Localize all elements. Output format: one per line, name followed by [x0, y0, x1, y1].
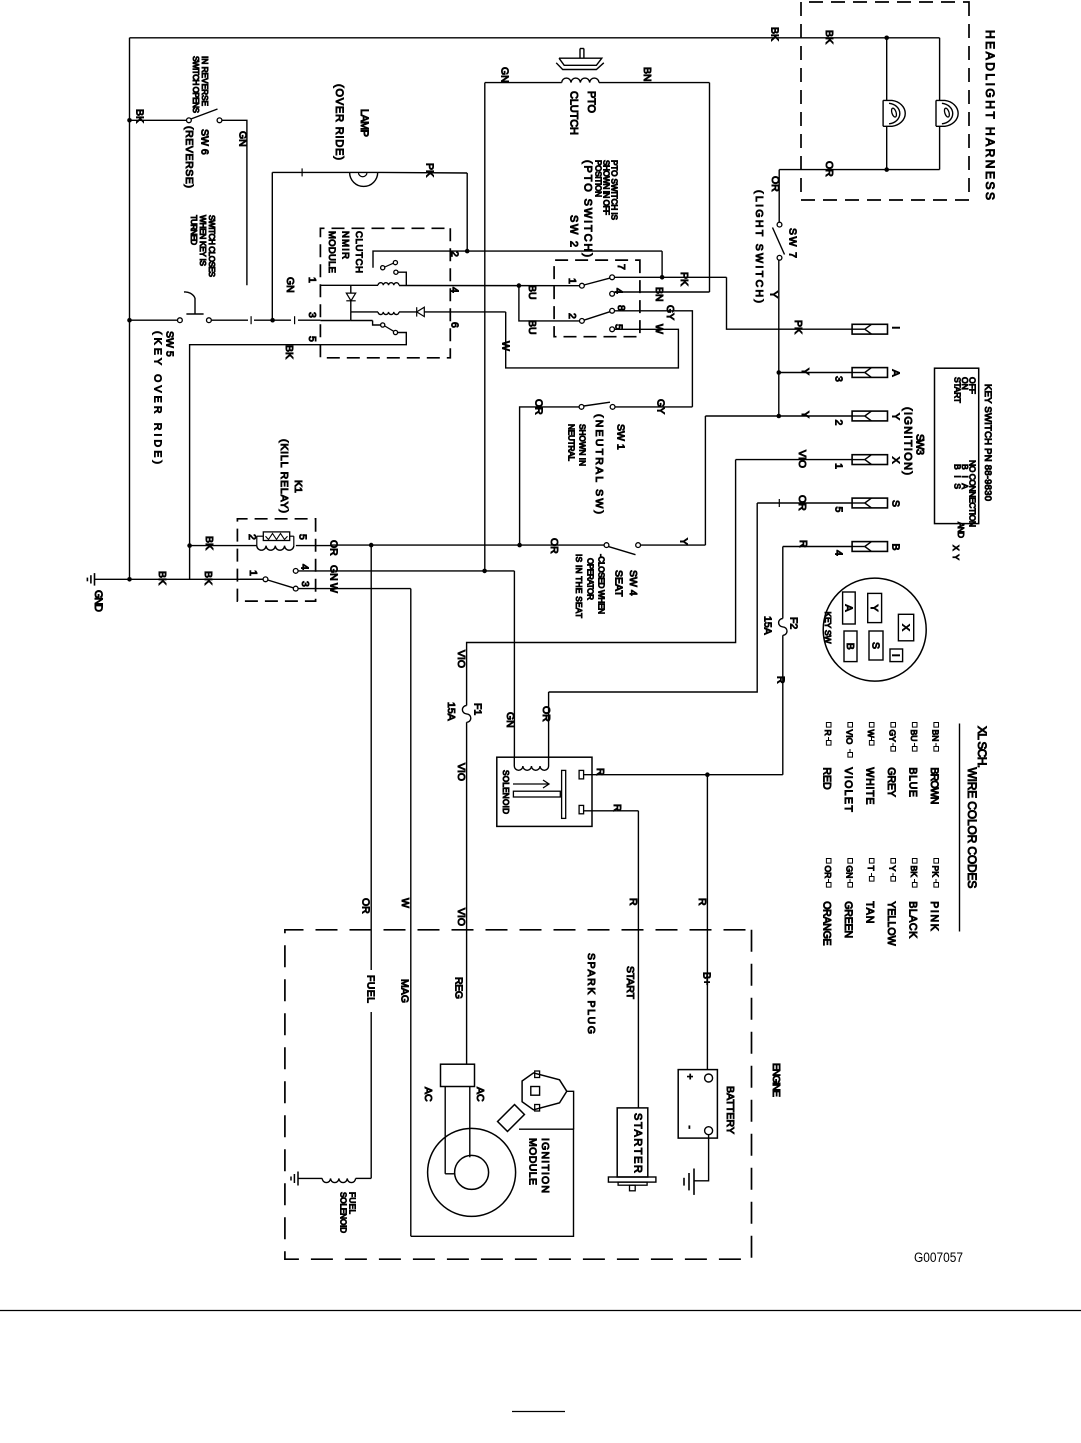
- wire GN down to solenoid: [513, 571, 515, 757]
- svg-text:GREY: GREY: [885, 767, 897, 797]
- svg-text:GREEN: GREEN: [842, 901, 854, 938]
- svg-text:(IGNITION): (IGNITION): [901, 407, 913, 475]
- svg-text:1: 1: [832, 463, 844, 469]
- svg-text:BK: BK: [283, 345, 295, 359]
- headlight lamp 2: [936, 100, 958, 126]
- connector spade terminal row S: [852, 498, 887, 508]
- wire GN long vertical: [484, 83, 486, 571]
- svg-text:F1: F1: [471, 703, 483, 715]
- wire Y bus: [778, 260, 780, 416]
- svg-text:SWITCH OPENS: SWITCH OPENS: [191, 56, 200, 114]
- svg-text:SPARK PLUG: SPARK PLUG: [585, 953, 597, 1034]
- svg-text:OPERATOR: OPERATOR: [585, 558, 594, 600]
- svg-text:Y: Y: [677, 538, 689, 545]
- svg-text:Y: Y: [889, 413, 901, 420]
- svg-text:LAMP: LAMP: [358, 109, 370, 137]
- SW6 terminal 1: [187, 118, 192, 123]
- module diode D2: [417, 307, 425, 316]
- module contact2 NC: [393, 330, 397, 334]
- svg-text:3: 3: [299, 581, 311, 587]
- svg-text:SW 4: SW 4: [627, 570, 639, 596]
- svg-text:2: 2: [246, 534, 258, 540]
- ground bat 2: [688, 1173, 690, 1190]
- K1 pin1 terminal: [263, 577, 268, 582]
- battery ground: [694, 1135, 709, 1181]
- svg-text:BN: BN: [653, 287, 665, 302]
- svg-text:BK: BK: [823, 30, 835, 44]
- svg-text:4: 4: [612, 288, 624, 294]
- wire OR to SW1: [520, 407, 580, 545]
- svg-text:SOLENOID: SOLENOID: [338, 1192, 347, 1233]
- wire GY SW1: [615, 406, 693, 408]
- svg-text:VIOLET: VIOLET: [842, 767, 854, 812]
- svg-text:ORANGE: ORANGE: [821, 901, 833, 945]
- svg-text:1: 1: [247, 570, 259, 576]
- K1 lever: [268, 580, 294, 588]
- color code row BLUE/BLACK: [912, 723, 917, 728]
- wire GN SW6 to module: [222, 120, 247, 285]
- wire contact1 to coil: [398, 272, 406, 285]
- svg-text:SW 3: SW 3: [913, 434, 925, 455]
- svg-text:TAN: TAN: [864, 901, 876, 923]
- wire PK to connector row1: [727, 277, 853, 329]
- SW5 terminal 2: [207, 318, 212, 323]
- PTO clutch coil: [562, 78, 599, 83]
- wire VIO from row4: [467, 460, 736, 706]
- SW5 push button actuator: [186, 313, 203, 315]
- key switch table box: [935, 368, 979, 523]
- ignition module outline: [411, 1129, 574, 1236]
- color code row GREY/YELLOW: [891, 723, 896, 728]
- svg-text:GN: GN: [498, 67, 510, 83]
- svg-text:-CLOSED WHEN: -CLOSED WHEN: [596, 554, 605, 614]
- node Y row3: [777, 414, 782, 419]
- svg-text:1: 1: [306, 277, 318, 283]
- SW1 lever: [584, 402, 610, 406]
- svg-text:AND: AND: [956, 522, 966, 538]
- SW4 terminal 1: [604, 543, 609, 548]
- svg-text:Y: Y: [767, 291, 779, 298]
- svg-text:3: 3: [832, 376, 844, 382]
- wire VIO row4: [736, 459, 853, 461]
- module diode D1: [350, 285, 352, 293]
- svg-text:SWITCH CLOSES: SWITCH CLOSES: [207, 215, 216, 278]
- svg-text:OR: OR: [769, 176, 781, 192]
- svg-text:B: B: [889, 544, 901, 551]
- svg-text:KEY SWITCH PN 88-9830: KEY SWITCH PN 88-9830: [982, 384, 993, 501]
- color code row WHITE/TAN: [869, 723, 874, 728]
- PTO clutch plate 2: [556, 63, 604, 70]
- wire K1 pin1: [240, 578, 263, 580]
- lamp override: [350, 172, 378, 186]
- connector spade terminal row Y: [852, 411, 887, 421]
- svg-text:(OVER RIDE): (OVER RIDE): [333, 84, 345, 160]
- tick: [250, 316, 252, 324]
- svg-text:SEAT: SEAT: [612, 570, 624, 597]
- svg-text:4: 4: [448, 287, 460, 293]
- node R B+ branch: [705, 772, 710, 777]
- svg-text:3: 3: [306, 312, 318, 318]
- svg-text:BLACK: BLACK: [907, 901, 919, 938]
- flywheel magneto: [428, 1128, 516, 1216]
- svg-text:FUEL: FUEL: [347, 1192, 356, 1214]
- svg-text:OR: OR: [327, 540, 339, 556]
- tick row5: [778, 499, 780, 507]
- svg-text:SW 2: SW 2: [567, 215, 579, 247]
- svg-text:YELLOW: YELLOW: [885, 901, 897, 945]
- svg-text:NMIR: NMIR: [339, 231, 350, 259]
- svg-text:K1: K1: [292, 480, 304, 493]
- clutch NMIR module box: [320, 228, 450, 357]
- svg-text:BK: BK: [203, 536, 215, 550]
- svg-text:F2: F2: [787, 617, 799, 629]
- wire to contact2: [373, 321, 381, 326]
- svg-text:VIO: VIO: [455, 763, 467, 781]
- SW2 pin1 terminal: [580, 283, 585, 288]
- module contact2 lever: [385, 326, 394, 331]
- svg-text:-: -: [684, 1126, 695, 1129]
- tick: [301, 168, 303, 176]
- svg-text:SW 7: SW 7: [786, 228, 798, 258]
- ground bat 1: [693, 1169, 695, 1195]
- svg-text:1: 1: [566, 278, 578, 284]
- key pin A: [843, 592, 856, 624]
- wire pin2 PK internal: [373, 251, 662, 268]
- svg-text:PK: PK: [423, 163, 435, 177]
- svg-text:REG: REG: [452, 977, 464, 999]
- svg-text:A: A: [842, 604, 854, 611]
- wire pin3 riser: [350, 312, 352, 321]
- svg-text:Y: Y: [868, 604, 880, 611]
- wire BK to SW6: [130, 119, 187, 121]
- headlight harness box: [801, 2, 969, 200]
- wire PK down to pin2: [466, 173, 468, 249]
- connector spade terminal row X: [852, 455, 887, 465]
- svg-text:X: X: [889, 457, 901, 464]
- wire R row6: [783, 546, 852, 548]
- svg-text:T: T: [866, 866, 876, 872]
- node PK: [660, 275, 665, 280]
- svg-text:BN: BN: [641, 67, 653, 82]
- SW1 terminal 2: [610, 405, 615, 410]
- fuse F1 15A: [462, 706, 470, 723]
- svg-text:BU: BU: [526, 320, 538, 335]
- wire OR to fuel solenoid: [370, 545, 372, 970]
- svg-text:START: START: [952, 377, 962, 403]
- wire OR row5: [757, 502, 852, 504]
- svg-text:NEUTRAL: NEUTRAL: [566, 424, 575, 461]
- tick: [294, 316, 296, 324]
- node SW6 branch: [127, 118, 132, 123]
- wire OR lamp bus: [779, 169, 939, 171]
- wire lamp2 bottom: [939, 127, 941, 170]
- wire OR into solenoid: [548, 692, 550, 766]
- battery: [678, 1070, 717, 1139]
- svg-text:X: X: [899, 624, 911, 631]
- AC stator box: [441, 1064, 475, 1086]
- svg-text:15A: 15A: [761, 616, 773, 635]
- svg-text:BLUE: BLUE: [907, 767, 919, 797]
- wire GN clutch left: [485, 82, 562, 84]
- wire spark plug: [567, 1091, 574, 1129]
- svg-text:GY: GY: [664, 305, 676, 320]
- svg-text:OR: OR: [548, 538, 560, 554]
- wire BK to pin5: [190, 345, 321, 580]
- module contact2 common: [381, 323, 385, 327]
- svg-text:BU: BU: [909, 730, 919, 742]
- node pin2 PK: [465, 249, 470, 254]
- wire lamp2 top: [939, 38, 941, 101]
- svg-text:SW 1: SW 1: [614, 424, 626, 450]
- svg-text:BROWN: BROWN: [928, 767, 940, 804]
- svg-text:CLUTCH: CLUTCH: [353, 231, 364, 273]
- svg-text:B: B: [844, 643, 856, 650]
- SW2 pin8 terminal: [610, 308, 615, 313]
- svg-text:OR: OR: [823, 866, 833, 879]
- node BU branch: [517, 283, 522, 288]
- ground bat 3: [683, 1178, 685, 1186]
- wire lamp left: [272, 171, 349, 173]
- svg-text:4: 4: [298, 564, 310, 570]
- key pin Y: [868, 593, 882, 622]
- svg-text:FUEL: FUEL: [364, 975, 376, 1003]
- wire lamp1 top: [886, 38, 888, 101]
- wire AC left: [444, 1087, 446, 1174]
- node Y row2: [777, 370, 782, 375]
- K1 resistor zigzag: [266, 534, 288, 540]
- solenoid terminals: [579, 770, 584, 779]
- svg-text:POSITION: POSITION: [593, 160, 602, 197]
- color code row BROWN/PINK: [934, 723, 939, 728]
- wire pin4 BU: [399, 285, 580, 287]
- svg-text:GN: GN: [284, 277, 296, 293]
- svg-text:(LIGHT SWITCH): (LIGHT SWITCH): [753, 190, 765, 303]
- key pin X: [898, 614, 913, 641]
- svg-text:(REVERSE): (REVERSE): [183, 126, 195, 188]
- svg-text:W: W: [653, 324, 665, 334]
- svg-text:SHOWN IN: SHOWN IN: [577, 424, 586, 466]
- svg-text:OR: OR: [796, 495, 808, 511]
- PTO clutch plate 1: [559, 58, 602, 65]
- SW2 lever 1-7: [584, 278, 610, 285]
- svg-text:R: R: [696, 898, 708, 906]
- fuse F2 15A: [782, 635, 784, 774]
- spark plug: [522, 1073, 567, 1110]
- node lamp1-BK: [884, 36, 889, 41]
- svg-text:W: W: [499, 341, 511, 351]
- wire AC right: [469, 1087, 471, 1158]
- svg-text:B I S: B I S: [952, 464, 962, 489]
- SW1 terminal 1: [579, 405, 584, 410]
- SW2 pin5 terminal: [610, 327, 615, 332]
- module coil 1: [378, 283, 399, 286]
- svg-text:WHEN KEY IS: WHEN KEY IS: [198, 215, 207, 267]
- svg-text:W: W: [399, 898, 411, 908]
- key switch round connector: [823, 578, 926, 681]
- svg-text:ENGINE: ENGINE: [770, 1063, 782, 1097]
- svg-text:AC: AC: [422, 1087, 434, 1102]
- footer rule: [0, 1310, 1081, 1312]
- svg-text:VIO: VIO: [796, 450, 808, 468]
- ground symbol GND: [94, 573, 96, 586]
- svg-text:OR: OR: [540, 706, 552, 722]
- K1 resistor: [263, 532, 289, 541]
- svg-text:WIRE COLOR CODES: WIRE COLOR CODES: [965, 767, 979, 888]
- wire pin7 PK: [614, 276, 726, 278]
- SW2 pin7 terminal: [610, 275, 615, 280]
- wire W/MAG: [410, 589, 412, 1237]
- svg-text:R: R: [594, 768, 606, 776]
- module contact1 common: [381, 266, 385, 270]
- module contact1 NO: [393, 261, 397, 265]
- node lamp1-OR: [884, 167, 889, 172]
- svg-text:I: I: [890, 654, 902, 657]
- svg-text:OR: OR: [359, 898, 371, 914]
- wire VIO/REG to AC box: [466, 722, 468, 1064]
- SW2 pin2 terminal: [580, 319, 585, 324]
- svg-text:IS IN THE SEAT: IS IN THE SEAT: [574, 554, 583, 618]
- svg-text:2: 2: [448, 251, 460, 257]
- svg-text:R: R: [797, 540, 809, 548]
- svg-text:I: I: [889, 326, 901, 329]
- svg-text:GY: GY: [888, 730, 898, 743]
- key pin S: [869, 631, 883, 660]
- svg-text:AC: AC: [474, 1087, 486, 1102]
- K1 kill relay box: [237, 519, 315, 601]
- svg-text:R: R: [611, 804, 623, 812]
- SW6 terminal 2: [217, 118, 222, 123]
- svg-text:SW 5: SW 5: [164, 331, 176, 357]
- solenoid arrow: [513, 783, 549, 785]
- svg-text:+: +: [684, 1074, 695, 1080]
- engine dashed box: [285, 930, 752, 1259]
- svg-text:R: R: [774, 676, 786, 684]
- wire Y up to bus: [704, 416, 706, 545]
- svg-text:PTO: PTO: [585, 91, 597, 113]
- svg-text:6: 6: [448, 322, 460, 328]
- K1 pin4 terminal: [293, 569, 298, 574]
- svg-text:GN: GN: [504, 712, 516, 728]
- wire lamp1 bottom: [886, 127, 888, 170]
- node GN junction: [482, 569, 487, 574]
- SW4 terminal 2: [636, 543, 641, 548]
- svg-text:XL SCH.: XL SCH.: [975, 726, 989, 768]
- svg-text:BK: BK: [768, 27, 780, 41]
- wire Y SW4: [640, 544, 705, 546]
- solenoid box: [497, 757, 592, 826]
- svg-text:2: 2: [566, 313, 578, 319]
- svg-text:BK: BK: [909, 866, 919, 878]
- K1 pin3 terminal: [293, 586, 298, 591]
- svg-text:G007057: G007057: [914, 1250, 963, 1265]
- wire BN down: [709, 83, 711, 292]
- svg-text:KEY SW: KEY SW: [823, 612, 833, 644]
- key pin B: [844, 631, 857, 662]
- svg-text:START: START: [624, 966, 636, 1000]
- svg-text:5: 5: [296, 534, 308, 540]
- svg-text:MODULE: MODULE: [526, 1138, 538, 1185]
- wire to diode2: [399, 311, 417, 313]
- wire pin1 GN: [320, 284, 378, 286]
- wire BN clutch right: [599, 82, 710, 84]
- ground fuel 3: [290, 1177, 292, 1181]
- svg-text:GN: GN: [236, 131, 248, 147]
- wire BK to SW5: [130, 319, 178, 321]
- svg-text:NO CONNECTION: NO CONNECTION: [967, 460, 977, 527]
- svg-text:MODULE: MODULE: [326, 231, 337, 273]
- fuel solenoid coil: [322, 1178, 355, 1182]
- svg-text:BU: BU: [526, 285, 538, 300]
- battery terminal: [705, 1127, 713, 1135]
- node GND junction: [127, 577, 132, 582]
- svg-text:SOLENOID: SOLENOID: [501, 770, 510, 814]
- node SW5/lamp junction: [270, 318, 275, 323]
- svg-text:SW 6: SW 6: [198, 129, 210, 155]
- svg-text:VIO: VIO: [845, 730, 855, 745]
- wire BK ground bus: [95, 578, 266, 580]
- starter: [617, 1108, 648, 1177]
- module contact1 lever: [385, 263, 394, 267]
- svg-text:WHITE: WHITE: [864, 767, 876, 804]
- svg-text:BATTERY: BATTERY: [724, 1086, 736, 1134]
- module coil 2: [378, 312, 399, 315]
- page number underline: [512, 1411, 565, 1413]
- SW7 terminal 2: [777, 255, 782, 260]
- svg-text:CLUTCH: CLUTCH: [567, 91, 579, 135]
- wire BK left border: [129, 38, 131, 580]
- svg-text:5: 5: [832, 507, 844, 513]
- wire W pin5 to module pin6: [506, 312, 679, 368]
- SW7 terminal 1: [777, 222, 782, 227]
- wire BK to K1 pin2: [212, 545, 257, 547]
- ground fuel 1: [297, 1172, 299, 1186]
- lamp override filament: [358, 172, 367, 176]
- wire Y row3: [705, 415, 852, 417]
- wire GY pin8 to SW1: [614, 311, 692, 407]
- svg-text:BK: BK: [202, 571, 214, 585]
- svg-text:S: S: [889, 500, 901, 507]
- svg-text:PINK: PINK: [928, 901, 940, 931]
- node OR SW1 branch: [517, 543, 522, 548]
- wire Y row2: [779, 372, 852, 374]
- SW2 pin4 terminal: [610, 291, 615, 296]
- svg-text:VIO: VIO: [455, 650, 467, 668]
- wire R to battery: [706, 775, 708, 1070]
- wire PK drop: [661, 251, 663, 277]
- ignition pickup: [498, 1105, 525, 1132]
- svg-text:15A: 15A: [445, 702, 457, 721]
- svg-text:GY: GY: [654, 399, 666, 414]
- svg-text:R: R: [823, 730, 833, 736]
- svg-text:MAG: MAG: [399, 979, 411, 1003]
- svg-text:R: R: [627, 898, 639, 906]
- color code row RED/ORANGE: [826, 723, 831, 728]
- svg-text:B+: B+: [700, 972, 712, 985]
- svg-text:X Y: X Y: [951, 545, 961, 560]
- svg-text:Y: Y: [799, 411, 811, 418]
- connector spade terminal row A: [852, 368, 887, 378]
- svg-text:Y: Y: [799, 368, 811, 375]
- module contact1 NC: [394, 270, 398, 274]
- svg-text:GN: GN: [327, 565, 339, 581]
- svg-text:HEADLIGHT HARNESS: HEADLIGHT HARNESS: [983, 30, 997, 200]
- svg-text:BK: BK: [156, 571, 168, 585]
- connector spade terminal row I: [852, 324, 887, 334]
- solenoid coil: [514, 766, 548, 770]
- wire pin6 W: [424, 311, 505, 313]
- svg-text:5: 5: [306, 336, 318, 342]
- solenoid plunger: [513, 791, 560, 797]
